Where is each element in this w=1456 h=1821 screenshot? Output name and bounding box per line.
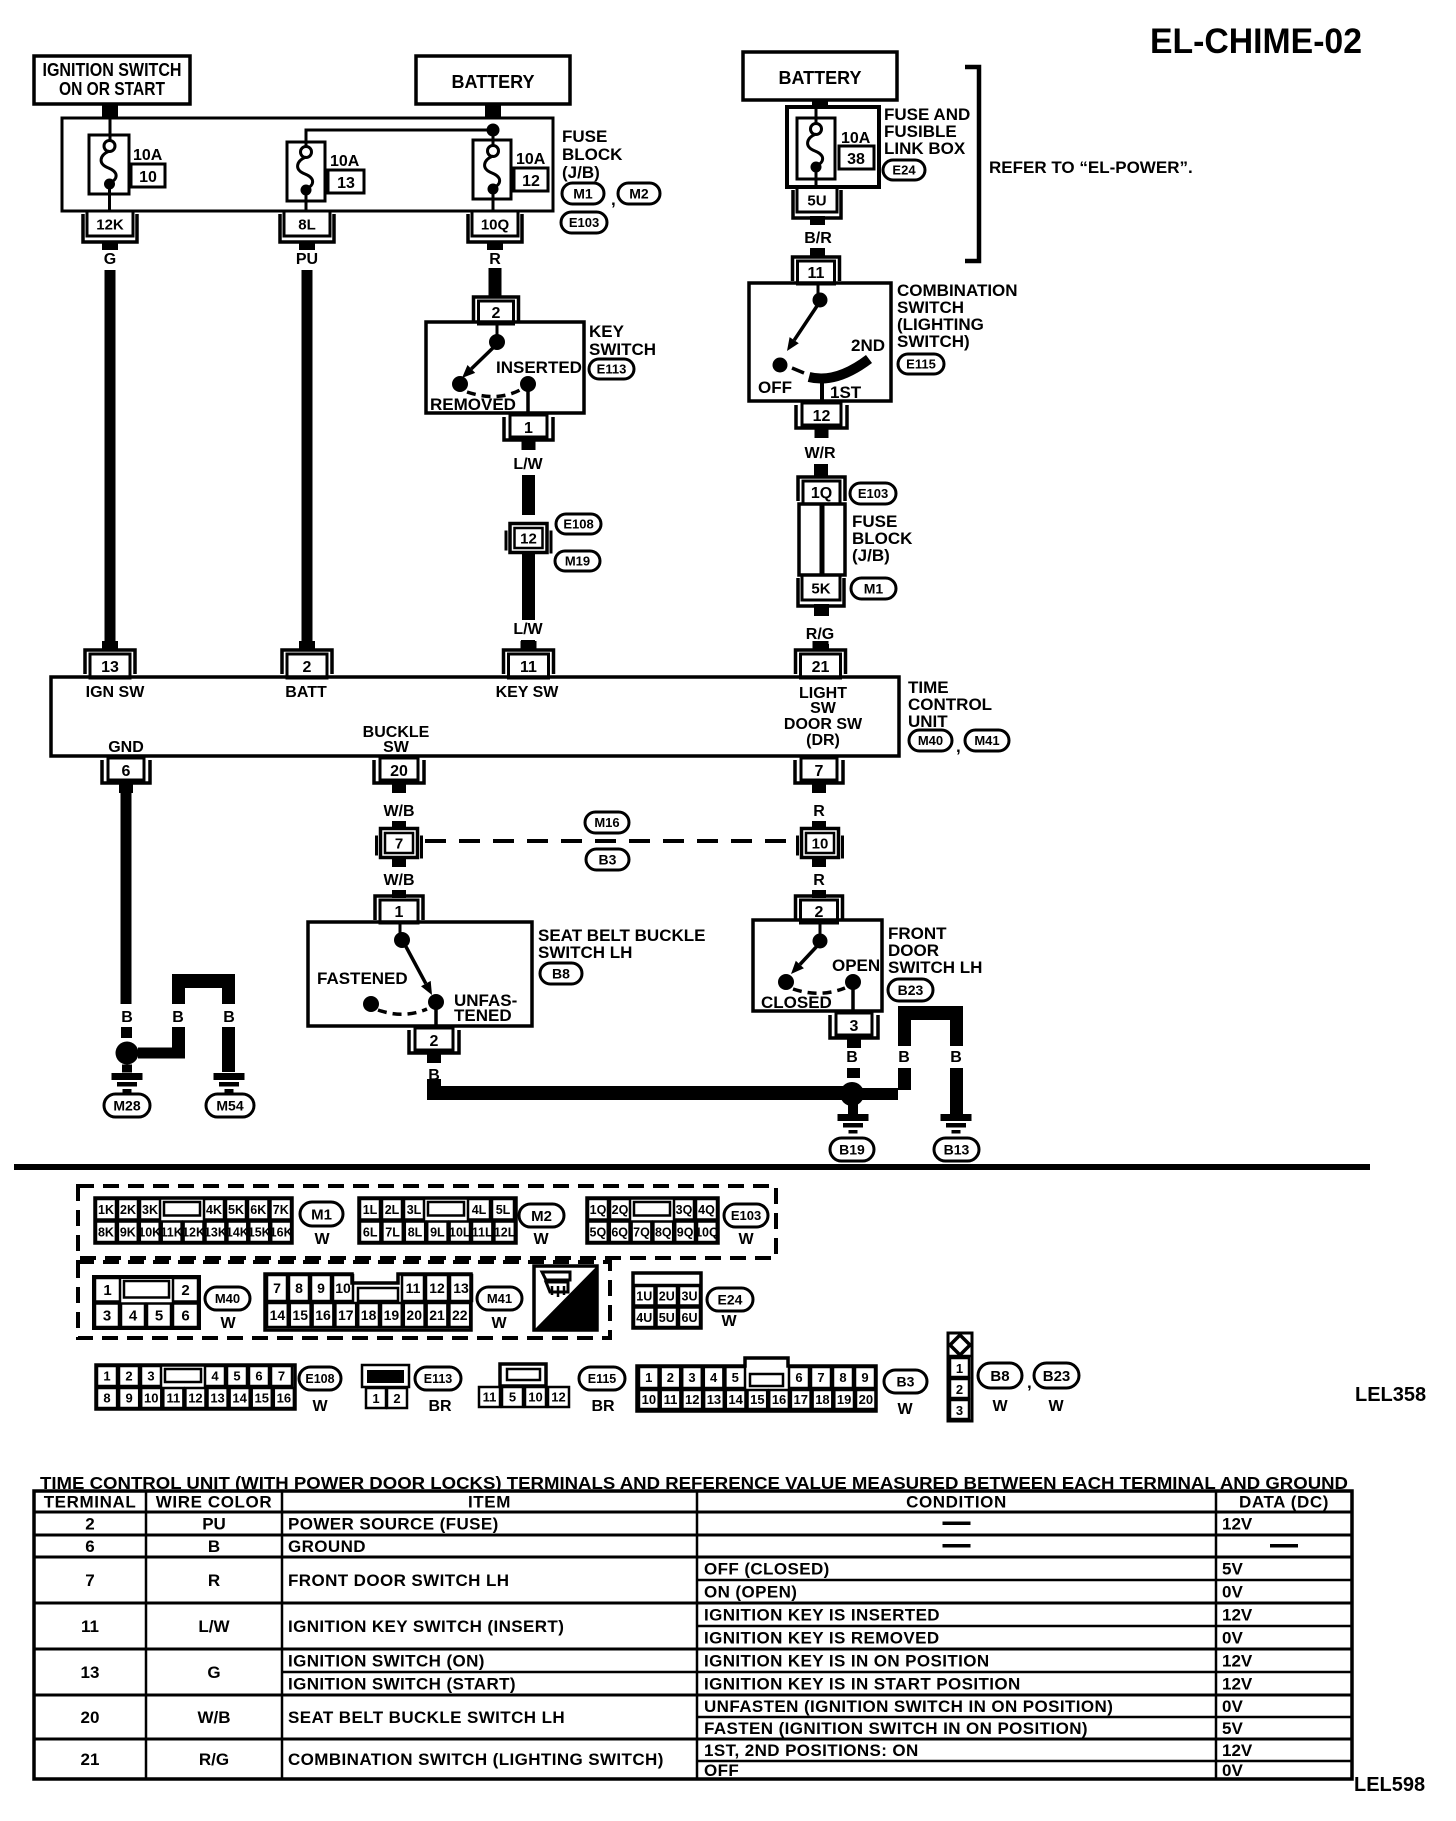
connector 3 (door switch) bbox=[836, 1013, 872, 1035]
svg-text:1: 1 bbox=[524, 420, 533, 437]
connector ref B3 bbox=[586, 849, 629, 870]
wire PU (battery) bbox=[302, 270, 313, 642]
svg-text:OFF: OFF bbox=[704, 1761, 739, 1780]
svg-text:M41: M41 bbox=[487, 1291, 512, 1306]
svg-text:DOOR SW: DOOR SW bbox=[784, 716, 863, 733]
svg-text:5K: 5K bbox=[228, 1203, 244, 1217]
battery box (right) bbox=[743, 52, 897, 100]
svg-text:12V: 12V bbox=[1222, 1652, 1253, 1671]
svg-text:20: 20 bbox=[406, 1307, 422, 1323]
svg-text:G: G bbox=[207, 1663, 220, 1682]
svg-text:SWITCH: SWITCH bbox=[589, 340, 656, 359]
svg-text:8: 8 bbox=[295, 1280, 303, 1296]
svg-text:12: 12 bbox=[551, 1390, 565, 1405]
svg-text:18: 18 bbox=[815, 1392, 829, 1407]
svg-text:DATA (DC): DATA (DC) bbox=[1239, 1493, 1329, 1512]
svg-text:E115: E115 bbox=[588, 1372, 617, 1386]
svg-text:20: 20 bbox=[390, 763, 408, 780]
svg-text:10: 10 bbox=[642, 1392, 656, 1407]
connector face E103 bbox=[587, 1198, 718, 1243]
svg-text:IGNITION SWITCH (ON): IGNITION SWITCH (ON) bbox=[288, 1652, 485, 1671]
connector ref B3 bbox=[884, 1370, 927, 1393]
separator line bbox=[14, 1164, 1370, 1170]
svg-text:4K: 4K bbox=[206, 1203, 222, 1217]
node: battery junction bbox=[487, 124, 500, 137]
svg-text:W/B: W/B bbox=[383, 872, 414, 889]
svg-text:7: 7 bbox=[817, 1370, 824, 1385]
svg-text:LEL358: LEL358 bbox=[1355, 1384, 1426, 1406]
svg-text:5V: 5V bbox=[1222, 1560, 1243, 1579]
svg-text:(J/B): (J/B) bbox=[852, 546, 890, 565]
ground ref B13 bbox=[934, 1138, 979, 1161]
svg-text:R: R bbox=[813, 803, 825, 820]
svg-text:20: 20 bbox=[81, 1708, 100, 1727]
connector ref M1 bbox=[300, 1202, 343, 1226]
svg-text:B19: B19 bbox=[839, 1142, 865, 1158]
svg-text:1ST: 1ST bbox=[830, 383, 862, 402]
svg-text:E103: E103 bbox=[569, 215, 599, 230]
svg-text:20: 20 bbox=[859, 1392, 873, 1407]
svg-text:19: 19 bbox=[837, 1392, 851, 1407]
connector face E113 bbox=[362, 1365, 409, 1387]
svg-text:22: 22 bbox=[452, 1307, 468, 1323]
svg-text:E115: E115 bbox=[906, 357, 936, 372]
svg-text:2: 2 bbox=[85, 1515, 94, 1534]
svg-text:REFER TO “EL-POWER”.: REFER TO “EL-POWER”. bbox=[989, 158, 1193, 177]
svg-text:GROUND: GROUND bbox=[288, 1537, 366, 1556]
svg-text:1: 1 bbox=[372, 1391, 379, 1406]
svg-text:13: 13 bbox=[707, 1392, 721, 1407]
svg-text:B: B bbox=[208, 1537, 220, 1556]
svg-text:6: 6 bbox=[122, 763, 131, 780]
svg-text:B3: B3 bbox=[599, 852, 617, 868]
svg-text:M40: M40 bbox=[918, 733, 943, 748]
svg-text:INSERTED: INSERTED bbox=[496, 358, 582, 377]
table condition/data rows bbox=[943, 1522, 971, 1526]
ground symbol B13 bbox=[941, 1114, 972, 1121]
connector 8L bbox=[280, 214, 334, 242]
svg-text:G: G bbox=[104, 251, 116, 268]
combination switch box bbox=[749, 283, 891, 401]
front door switch box bbox=[753, 920, 882, 1011]
svg-text:11: 11 bbox=[483, 1390, 497, 1405]
svg-text:FUSE: FUSE bbox=[562, 127, 607, 146]
svg-text:M28: M28 bbox=[113, 1098, 140, 1114]
svg-text:W: W bbox=[491, 1315, 507, 1332]
svg-text:9Q: 9Q bbox=[677, 1225, 694, 1239]
svg-text:2U: 2U bbox=[659, 1289, 675, 1303]
connector ref E24 bbox=[707, 1288, 753, 1311]
wire: open contact to pin 3 bbox=[851, 988, 855, 1011]
rotary contact band 1ST-2ND bbox=[809, 359, 869, 379]
svg-text:10A: 10A bbox=[516, 151, 546, 168]
svg-text:8L: 8L bbox=[298, 217, 316, 234]
svg-text:BR: BR bbox=[428, 1398, 452, 1415]
connector 12 (combination switch) bbox=[802, 403, 841, 425]
svg-text:LEL598: LEL598 bbox=[1354, 1774, 1425, 1796]
svg-text:12: 12 bbox=[522, 173, 540, 190]
connector face E115 bbox=[500, 1364, 546, 1386]
svg-text:15: 15 bbox=[750, 1392, 764, 1407]
svg-text:4: 4 bbox=[710, 1370, 718, 1385]
svg-text:L/W: L/W bbox=[513, 621, 543, 638]
svg-text:1U: 1U bbox=[636, 1289, 652, 1303]
svg-text:B: B bbox=[846, 1049, 858, 1066]
svg-text:5U: 5U bbox=[659, 1311, 675, 1325]
buckle switch arm arrow bbox=[404, 943, 426, 984]
svg-text:IGN SW: IGN SW bbox=[86, 684, 146, 701]
svg-text:B: B bbox=[898, 1049, 910, 1066]
svg-text:1: 1 bbox=[103, 1282, 111, 1299]
svg-text:1Q: 1Q bbox=[590, 1203, 607, 1217]
connector 13 (TCU IGN SW) bbox=[102, 641, 118, 650]
svg-text:8K: 8K bbox=[98, 1225, 114, 1239]
svg-text:6: 6 bbox=[255, 1369, 262, 1384]
svg-text:2K: 2K bbox=[120, 1203, 136, 1217]
svg-text:13: 13 bbox=[101, 659, 119, 676]
svg-text:W: W bbox=[992, 1398, 1008, 1415]
wire: ignition switch to fuse block bbox=[102, 104, 118, 119]
FASTENED contact bbox=[363, 996, 379, 1012]
fuse number 13 bbox=[328, 170, 364, 193]
svg-text:PU: PU bbox=[202, 1515, 226, 1534]
svg-text:7: 7 bbox=[815, 763, 824, 780]
svg-text:W: W bbox=[533, 1231, 549, 1248]
svg-text:IGNITION KEY SWITCH (INSERT): IGNITION KEY SWITCH (INSERT) bbox=[288, 1617, 564, 1636]
svg-text:W/B: W/B bbox=[197, 1708, 230, 1727]
fuse number 12 bbox=[514, 168, 548, 191]
svg-text:E113: E113 bbox=[424, 1372, 453, 1386]
svg-text:ON OR START: ON OR START bbox=[59, 79, 165, 99]
svg-text:2: 2 bbox=[181, 1282, 189, 1299]
svg-text:BR: BR bbox=[591, 1398, 615, 1415]
svg-text:5V: 5V bbox=[1222, 1719, 1243, 1738]
svg-text:BLOCK: BLOCK bbox=[562, 145, 623, 164]
connector face E108 bbox=[96, 1365, 295, 1409]
svg-text:10: 10 bbox=[139, 169, 157, 186]
svg-text:(DR): (DR) bbox=[806, 732, 840, 749]
svg-text:3: 3 bbox=[103, 1308, 111, 1325]
connector ref B8 bbox=[978, 1363, 1022, 1388]
svg-text:10Q: 10Q bbox=[695, 1225, 719, 1239]
wire: junction to M54 branch bbox=[138, 1048, 185, 1059]
svg-text:5U: 5U bbox=[807, 193, 826, 210]
comb switch: wire to pivot bbox=[817, 283, 820, 296]
svg-text:10Q: 10Q bbox=[481, 217, 510, 234]
svg-text:IGNITION KEY IS REMOVED: IGNITION KEY IS REMOVED bbox=[704, 1629, 940, 1648]
svg-text:B8: B8 bbox=[990, 1368, 1009, 1385]
seat belt buckle switch box bbox=[308, 922, 532, 1026]
svg-text:UNFASTEN (IGNITION SWITCH IN O: UNFASTEN (IGNITION SWITCH IN ON POSITION… bbox=[704, 1697, 1113, 1716]
svg-text:SEAT BELT BUCKLE SWITCH LH: SEAT BELT BUCKLE SWITCH LH bbox=[288, 1708, 565, 1727]
wire: junction to fuse 13 bbox=[306, 130, 493, 146]
svg-text:3: 3 bbox=[850, 1018, 859, 1035]
svg-text:8L: 8L bbox=[408, 1225, 423, 1239]
svg-text:18: 18 bbox=[361, 1307, 377, 1323]
svg-text:7L: 7L bbox=[385, 1225, 400, 1239]
dashed wire to door switch branch bbox=[425, 839, 794, 843]
connector ref M16 bbox=[585, 812, 629, 833]
connector ref M1 bbox=[851, 578, 896, 599]
connector ref M19 bbox=[555, 551, 600, 571]
wire L/W upper bbox=[522, 475, 535, 515]
svg-text:W: W bbox=[312, 1398, 328, 1415]
svg-text:1: 1 bbox=[956, 1361, 963, 1376]
ground bus wire bbox=[427, 1079, 441, 1087]
svg-text:6: 6 bbox=[795, 1370, 802, 1385]
connector 2 (buckle switch) bbox=[415, 1028, 453, 1050]
svg-text:EL-CHIME-02: EL-CHIME-02 bbox=[1150, 22, 1362, 61]
svg-text:B: B bbox=[950, 1049, 962, 1066]
svg-text:5: 5 bbox=[233, 1369, 240, 1384]
fuse number 10 bbox=[131, 164, 165, 187]
dashed travel arc bbox=[467, 390, 520, 397]
svg-text:6: 6 bbox=[181, 1308, 189, 1325]
svg-text:LINK BOX: LINK BOX bbox=[884, 139, 966, 158]
svg-text:11L: 11L bbox=[472, 1225, 493, 1239]
svg-text:0V: 0V bbox=[1222, 1583, 1243, 1602]
svg-text:TENED: TENED bbox=[454, 1006, 512, 1025]
connector 12 inline (E108/M19) bbox=[505, 531, 508, 551]
svg-text:7: 7 bbox=[85, 1571, 94, 1590]
svg-text:E103: E103 bbox=[858, 486, 888, 501]
svg-text:10A: 10A bbox=[330, 153, 360, 170]
svg-text:7: 7 bbox=[273, 1280, 281, 1296]
svg-text:W: W bbox=[220, 1315, 236, 1332]
fusible link 38 (10A) bbox=[797, 118, 835, 179]
connector ref E113 bbox=[415, 1367, 461, 1390]
connector 10Q bbox=[468, 214, 522, 242]
svg-text:E103: E103 bbox=[731, 1208, 761, 1223]
svg-text:OFF: OFF bbox=[758, 378, 792, 397]
svg-text:2: 2 bbox=[393, 1391, 400, 1406]
key switch pivot bbox=[489, 334, 505, 350]
ground symbol B19 bbox=[848, 1104, 858, 1114]
svg-text:2: 2 bbox=[303, 659, 312, 676]
svg-text:11: 11 bbox=[406, 1280, 421, 1296]
svg-text:12K: 12K bbox=[182, 1225, 205, 1239]
svg-text:4: 4 bbox=[211, 1369, 219, 1384]
connector ref B23 bbox=[888, 979, 933, 1001]
svg-text:6L: 6L bbox=[363, 1225, 378, 1239]
svg-text:M41: M41 bbox=[974, 733, 999, 748]
svg-text:SWITCH): SWITCH) bbox=[897, 332, 970, 351]
svg-text:10A: 10A bbox=[841, 130, 871, 147]
connector face M40 bbox=[94, 1277, 199, 1328]
svg-text:1L: 1L bbox=[363, 1203, 378, 1217]
svg-text:2: 2 bbox=[956, 1382, 963, 1397]
svg-text:R/G: R/G bbox=[199, 1750, 229, 1769]
svg-text:7K: 7K bbox=[273, 1203, 289, 1217]
svg-text:E24: E24 bbox=[892, 163, 916, 178]
svg-text:SW: SW bbox=[383, 739, 410, 756]
off dash bbox=[792, 368, 804, 373]
svg-text:12L: 12L bbox=[494, 1225, 516, 1239]
svg-text:L/W: L/W bbox=[513, 456, 543, 473]
key switch arm arrow bbox=[471, 344, 497, 369]
connector face M2 bbox=[359, 1198, 516, 1243]
svg-text:2Q: 2Q bbox=[612, 1203, 629, 1217]
fuse and fusible link box bbox=[787, 107, 879, 187]
svg-text:14: 14 bbox=[232, 1391, 247, 1406]
svg-text:15: 15 bbox=[292, 1307, 308, 1323]
svg-text:10: 10 bbox=[144, 1391, 158, 1406]
svg-text:B23: B23 bbox=[898, 982, 924, 998]
svg-text:5: 5 bbox=[732, 1370, 739, 1385]
wire: band to pin 12 bbox=[820, 378, 824, 401]
connector 1 (key switch) bbox=[510, 415, 547, 437]
connector 7 inline (M16/B3) bbox=[375, 836, 378, 856]
svg-text:FASTEN (IGNITION SWITCH IN ON: FASTEN (IGNITION SWITCH IN ON POSITION) bbox=[704, 1719, 1088, 1738]
connector 10 inline bbox=[796, 836, 799, 856]
comb switch pivot bbox=[813, 293, 828, 308]
svg-text:M19: M19 bbox=[565, 554, 590, 569]
svg-text:19: 19 bbox=[384, 1307, 400, 1323]
wire: junction to B13 branch bbox=[862, 1088, 898, 1100]
svg-text:W: W bbox=[721, 1313, 737, 1330]
connector face B8/B23 bbox=[948, 1333, 972, 1421]
ignition switch box bbox=[34, 56, 190, 104]
wire into fuse 12 bbox=[492, 130, 495, 146]
svg-text:12: 12 bbox=[685, 1392, 699, 1407]
svg-text:M1: M1 bbox=[311, 1206, 332, 1223]
svg-text:M2: M2 bbox=[531, 1208, 552, 1225]
buckle switch: wire to pivot bbox=[399, 922, 402, 936]
svg-text:11: 11 bbox=[81, 1617, 99, 1636]
svg-text:IGNITION SWITCH: IGNITION SWITCH bbox=[43, 60, 182, 80]
svg-text:1: 1 bbox=[103, 1369, 110, 1384]
connector 6 (TCU GND) bbox=[108, 758, 144, 780]
svg-text:12V: 12V bbox=[1222, 1741, 1253, 1760]
svg-text:12: 12 bbox=[813, 408, 831, 425]
svg-text:5: 5 bbox=[509, 1390, 516, 1405]
svg-text:W: W bbox=[314, 1231, 330, 1248]
svg-text:12: 12 bbox=[429, 1280, 445, 1296]
wire: battery to fuse block bbox=[485, 104, 501, 119]
svg-text:12V: 12V bbox=[1222, 1606, 1253, 1625]
wire: unfastened contact to pin 2 bbox=[434, 1008, 438, 1026]
svg-text:M54: M54 bbox=[216, 1098, 243, 1114]
svg-text:1K: 1K bbox=[98, 1203, 114, 1217]
svg-text:1: 1 bbox=[395, 904, 404, 921]
buckle switch pivot bbox=[394, 932, 410, 948]
svg-text:R: R bbox=[208, 1571, 220, 1590]
ground symbol M54 bbox=[214, 1073, 245, 1080]
H.S. emblem bbox=[534, 1266, 597, 1330]
svg-text:3: 3 bbox=[956, 1403, 963, 1418]
svg-text:11: 11 bbox=[166, 1391, 180, 1406]
svg-text:2: 2 bbox=[667, 1370, 674, 1385]
svg-text:4U: 4U bbox=[636, 1311, 652, 1325]
CLOSED contact bbox=[778, 974, 794, 990]
svg-text:14: 14 bbox=[270, 1307, 286, 1323]
connector ref E115 bbox=[579, 1367, 625, 1390]
wire B (ground) bbox=[121, 793, 132, 1004]
svg-text:11K: 11K bbox=[161, 1225, 183, 1239]
svg-text:M40: M40 bbox=[215, 1291, 240, 1306]
svg-text:10L: 10L bbox=[449, 1225, 471, 1239]
connector 2 (key switch) bbox=[474, 297, 519, 321]
connector 7 (TCU DOOR SW) bbox=[801, 758, 837, 780]
fuse 10 (10A) bbox=[89, 135, 129, 194]
svg-text:CLOSED: CLOSED bbox=[761, 993, 832, 1012]
connector ref E108 bbox=[556, 514, 601, 534]
svg-text:0V: 0V bbox=[1222, 1761, 1243, 1780]
svg-text:13: 13 bbox=[81, 1663, 100, 1682]
svg-text:KEY: KEY bbox=[589, 322, 625, 341]
svg-text:TERMINAL: TERMINAL bbox=[44, 1493, 137, 1512]
svg-text:16: 16 bbox=[277, 1391, 291, 1406]
svg-text:M1: M1 bbox=[864, 581, 884, 597]
svg-text:10: 10 bbox=[528, 1390, 542, 1405]
key switch: wire to pivot bbox=[496, 322, 499, 340]
connector face M1 bbox=[95, 1198, 292, 1243]
svg-text:13: 13 bbox=[337, 175, 355, 192]
dashed travel arc bbox=[793, 988, 845, 993]
svg-text:IGNITION KEY IS INSERTED: IGNITION KEY IS INSERTED bbox=[704, 1606, 940, 1625]
OPEN contact bbox=[845, 974, 861, 990]
fuse block (J/B) pass-through bbox=[799, 504, 845, 575]
svg-text:M1: M1 bbox=[573, 186, 593, 202]
svg-text:7Q: 7Q bbox=[633, 1225, 650, 1239]
dashed travel arc bbox=[378, 1009, 427, 1014]
svg-text:9: 9 bbox=[126, 1391, 133, 1406]
connector 20 (TCU BUCKLE SW) bbox=[380, 758, 418, 780]
svg-text:R/G: R/G bbox=[806, 626, 834, 643]
wire B branch (inverted U right) bbox=[898, 1006, 963, 1020]
svg-text:B8: B8 bbox=[552, 966, 570, 982]
svg-text:3Q: 3Q bbox=[676, 1203, 693, 1217]
svg-text:IGNITION KEY IS IN START POSIT: IGNITION KEY IS IN START POSITION bbox=[704, 1675, 1021, 1694]
comb switch OFF contact bbox=[773, 358, 788, 373]
svg-text:E108: E108 bbox=[563, 517, 593, 532]
svg-text:FASTENED: FASTENED bbox=[317, 969, 408, 988]
svg-text:10A: 10A bbox=[133, 147, 163, 164]
svg-text:9L: 9L bbox=[430, 1225, 445, 1239]
svg-text:10: 10 bbox=[812, 836, 829, 853]
svg-text:E108: E108 bbox=[305, 1372, 334, 1386]
svg-text:ITEM: ITEM bbox=[468, 1493, 511, 1512]
svg-text:5: 5 bbox=[155, 1308, 163, 1325]
battery box (left) bbox=[416, 56, 570, 104]
svg-text:CONDITION: CONDITION bbox=[906, 1493, 1007, 1512]
svg-text:SWITCH LH: SWITCH LH bbox=[888, 958, 982, 977]
ground junction node bbox=[840, 1082, 864, 1106]
svg-text:5K: 5K bbox=[811, 581, 830, 598]
connector ref M2 bbox=[519, 1204, 564, 1227]
dashed group box 2 bbox=[78, 1262, 610, 1338]
connector 5U bbox=[793, 190, 841, 218]
svg-text:UNIT: UNIT bbox=[908, 712, 948, 731]
svg-text:SW: SW bbox=[810, 700, 837, 717]
svg-text:12: 12 bbox=[520, 531, 537, 548]
svg-text:3L: 3L bbox=[407, 1203, 422, 1217]
connector ref E24 bbox=[883, 160, 925, 180]
key switch REMOVED contact bbox=[452, 376, 468, 392]
connector ref M1 bbox=[562, 183, 604, 204]
svg-text:16: 16 bbox=[772, 1392, 786, 1407]
svg-text:W: W bbox=[1048, 1398, 1064, 1415]
svg-text:R: R bbox=[489, 251, 501, 268]
svg-text:7: 7 bbox=[395, 836, 403, 853]
svg-text:IGNITION KEY IS IN ON POSITION: IGNITION KEY IS IN ON POSITION bbox=[704, 1652, 990, 1671]
svg-text:9: 9 bbox=[861, 1370, 868, 1385]
svg-text:,: , bbox=[611, 190, 616, 209]
connector 12K bbox=[83, 214, 137, 242]
svg-text:BATTERY: BATTERY bbox=[452, 72, 535, 92]
connector ref E113 bbox=[589, 359, 634, 379]
svg-text:4L: 4L bbox=[472, 1203, 487, 1217]
